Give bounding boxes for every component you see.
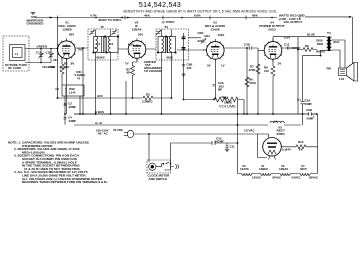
- svg-text:70V: 70V: [78, 48, 83, 52]
- svg-text:434: 434: [53, 58, 58, 62]
- svg-text:GREEN: GREEN: [37, 44, 47, 48]
- svg-text:BLK: BLK: [334, 40, 341, 44]
- svg-text:47: 47: [77, 76, 81, 80]
- svg-text:12BA6: 12BA6: [132, 28, 142, 32]
- svg-text:VAC OUTPUT: VAC OUTPUT: [284, 20, 303, 24]
- svg-text:GROUNDED: GROUNDED: [27, 22, 44, 26]
- svg-text:430: 430: [187, 66, 192, 70]
- svg-text:1V: 1V: [221, 64, 225, 68]
- svg-text:R-4: R-4: [222, 95, 227, 99]
- svg-text:100: 100: [264, 69, 269, 73]
- svg-text:WHITE: WHITE: [316, 50, 325, 54]
- svg-text:45 VDC: 45 VDC: [113, 128, 124, 132]
- svg-text:22K: 22K: [64, 65, 70, 69]
- svg-text:L1: L1: [15, 52, 19, 56]
- svg-text:85VAC: 85VAC: [309, 175, 319, 179]
- svg-text:AVC: AVC: [97, 94, 104, 98]
- svg-text:L2-B: L2-B: [69, 90, 75, 94]
- svg-text:ADJ: ADJ: [204, 34, 210, 38]
- svg-text:B BUS: B BUS: [95, 110, 104, 114]
- svg-text:50C5: 50C5: [268, 28, 276, 32]
- svg-text:66%: 66%: [252, 13, 258, 17]
- svg-text:50MF: 50MF: [305, 102, 313, 106]
- svg-text:R9: R9: [305, 44, 309, 48]
- svg-text:C4: C4: [97, 42, 101, 46]
- svg-text:C6B: C6B: [306, 108, 312, 112]
- svg-text:C3B: C3B: [244, 43, 250, 47]
- svg-text:12AV6: 12AV6: [210, 28, 220, 32]
- svg-text:.04MF: .04MF: [68, 119, 76, 123]
- svg-text:.8V: .8V: [70, 62, 74, 66]
- svg-text:80V: 80V: [69, 33, 74, 37]
- svg-text:4.7%: 4.7%: [90, 13, 97, 17]
- svg-text:L4: L4: [274, 119, 278, 123]
- svg-text:7V: 7V: [125, 61, 129, 65]
- svg-text:46%: 46%: [144, 13, 150, 17]
- svg-text:470K: 470K: [249, 81, 257, 85]
- svg-text:50V: 50V: [138, 33, 143, 37]
- svg-text:1.5V: 1.5V: [128, 43, 134, 47]
- svg-text:OF LOOP: OF LOOP: [8, 66, 21, 70]
- svg-text:@ 455KC: @ 455KC: [162, 20, 176, 24]
- svg-text:C4: C4: [110, 42, 114, 46]
- svg-text:100V: 100V: [218, 33, 225, 37]
- svg-text:(+)94V: (+)94V: [282, 148, 291, 152]
- svg-text:12BA6: 12BA6: [279, 167, 288, 171]
- svg-text:12VAC: 12VAC: [252, 175, 262, 179]
- svg-text:(+): (+): [297, 98, 301, 102]
- svg-text:4.5: 4.5: [55, 87, 59, 91]
- svg-text:120V: 120V: [284, 36, 291, 40]
- svg-text:T4: T4: [327, 31, 331, 35]
- svg-text:.5V: .5V: [277, 62, 281, 66]
- svg-text:117VAC: 117VAC: [244, 128, 255, 132]
- svg-text:35W4: 35W4: [277, 132, 285, 136]
- svg-text:C1B: C1B: [46, 51, 52, 55]
- svg-text:470K: 470K: [249, 68, 257, 72]
- svg-text:514,542,543: 514,542,543: [139, 2, 181, 9]
- svg-text:.047MF: .047MF: [214, 139, 224, 143]
- svg-text:54VAC: 54VAC: [292, 175, 302, 179]
- svg-text:C12: C12: [284, 43, 290, 47]
- svg-text:TO CHASSIS: TO CHASSIS: [144, 69, 162, 73]
- svg-text:220: 220: [198, 39, 203, 43]
- svg-text:C11: C11: [230, 145, 236, 149]
- svg-text:READINGS TAKEN BETWEEN TUBE PI: READINGS TAKEN BETWEEN TUBE PIN TERMINAL…: [22, 180, 108, 184]
- svg-text:.02MF: .02MF: [68, 105, 76, 109]
- svg-text:VOLUME: VOLUME: [219, 104, 236, 109]
- svg-text:400KC TO 455KC: 400KC TO 455KC: [98, 18, 122, 22]
- svg-text:12AV6: 12AV6: [240, 167, 249, 171]
- svg-text:AND SWITCH: AND SWITCH: [149, 177, 167, 181]
- svg-text:12BE6: 12BE6: [62, 28, 72, 32]
- svg-text:LS1: LS1: [339, 77, 345, 81]
- svg-text:60~ AC: 60~ AC: [98, 132, 109, 136]
- svg-text:PM: PM: [327, 67, 332, 71]
- svg-text:0V: 0V: [207, 64, 211, 68]
- svg-text:68: 68: [127, 71, 131, 75]
- svg-text:RED: RED: [317, 42, 323, 46]
- svg-text:C1A: C1A: [36, 51, 43, 55]
- svg-text:MF: MF: [218, 88, 222, 92]
- svg-text:12BE6: 12BE6: [259, 167, 268, 171]
- svg-text:6.6%: 6.6%: [194, 13, 201, 17]
- svg-text:50C5: 50C5: [300, 167, 307, 171]
- svg-text:T3: T3: [164, 25, 168, 29]
- svg-text:34VAC: 34VAC: [272, 175, 282, 179]
- svg-text:R13: R13: [298, 140, 304, 144]
- svg-text:455KC: 455KC: [96, 56, 106, 60]
- svg-text:2.2MEG: 2.2MEG: [142, 100, 153, 104]
- svg-text:T2: T2: [100, 25, 104, 29]
- svg-text:R3: R3: [146, 92, 150, 96]
- svg-text:455K: 455K: [166, 56, 174, 60]
- svg-text:A+ B-: A+ B-: [95, 121, 103, 125]
- svg-text:+: +: [313, 114, 315, 118]
- svg-text:LOW: LOW: [49, 65, 56, 69]
- svg-text:BLUE: BLUE: [307, 33, 315, 37]
